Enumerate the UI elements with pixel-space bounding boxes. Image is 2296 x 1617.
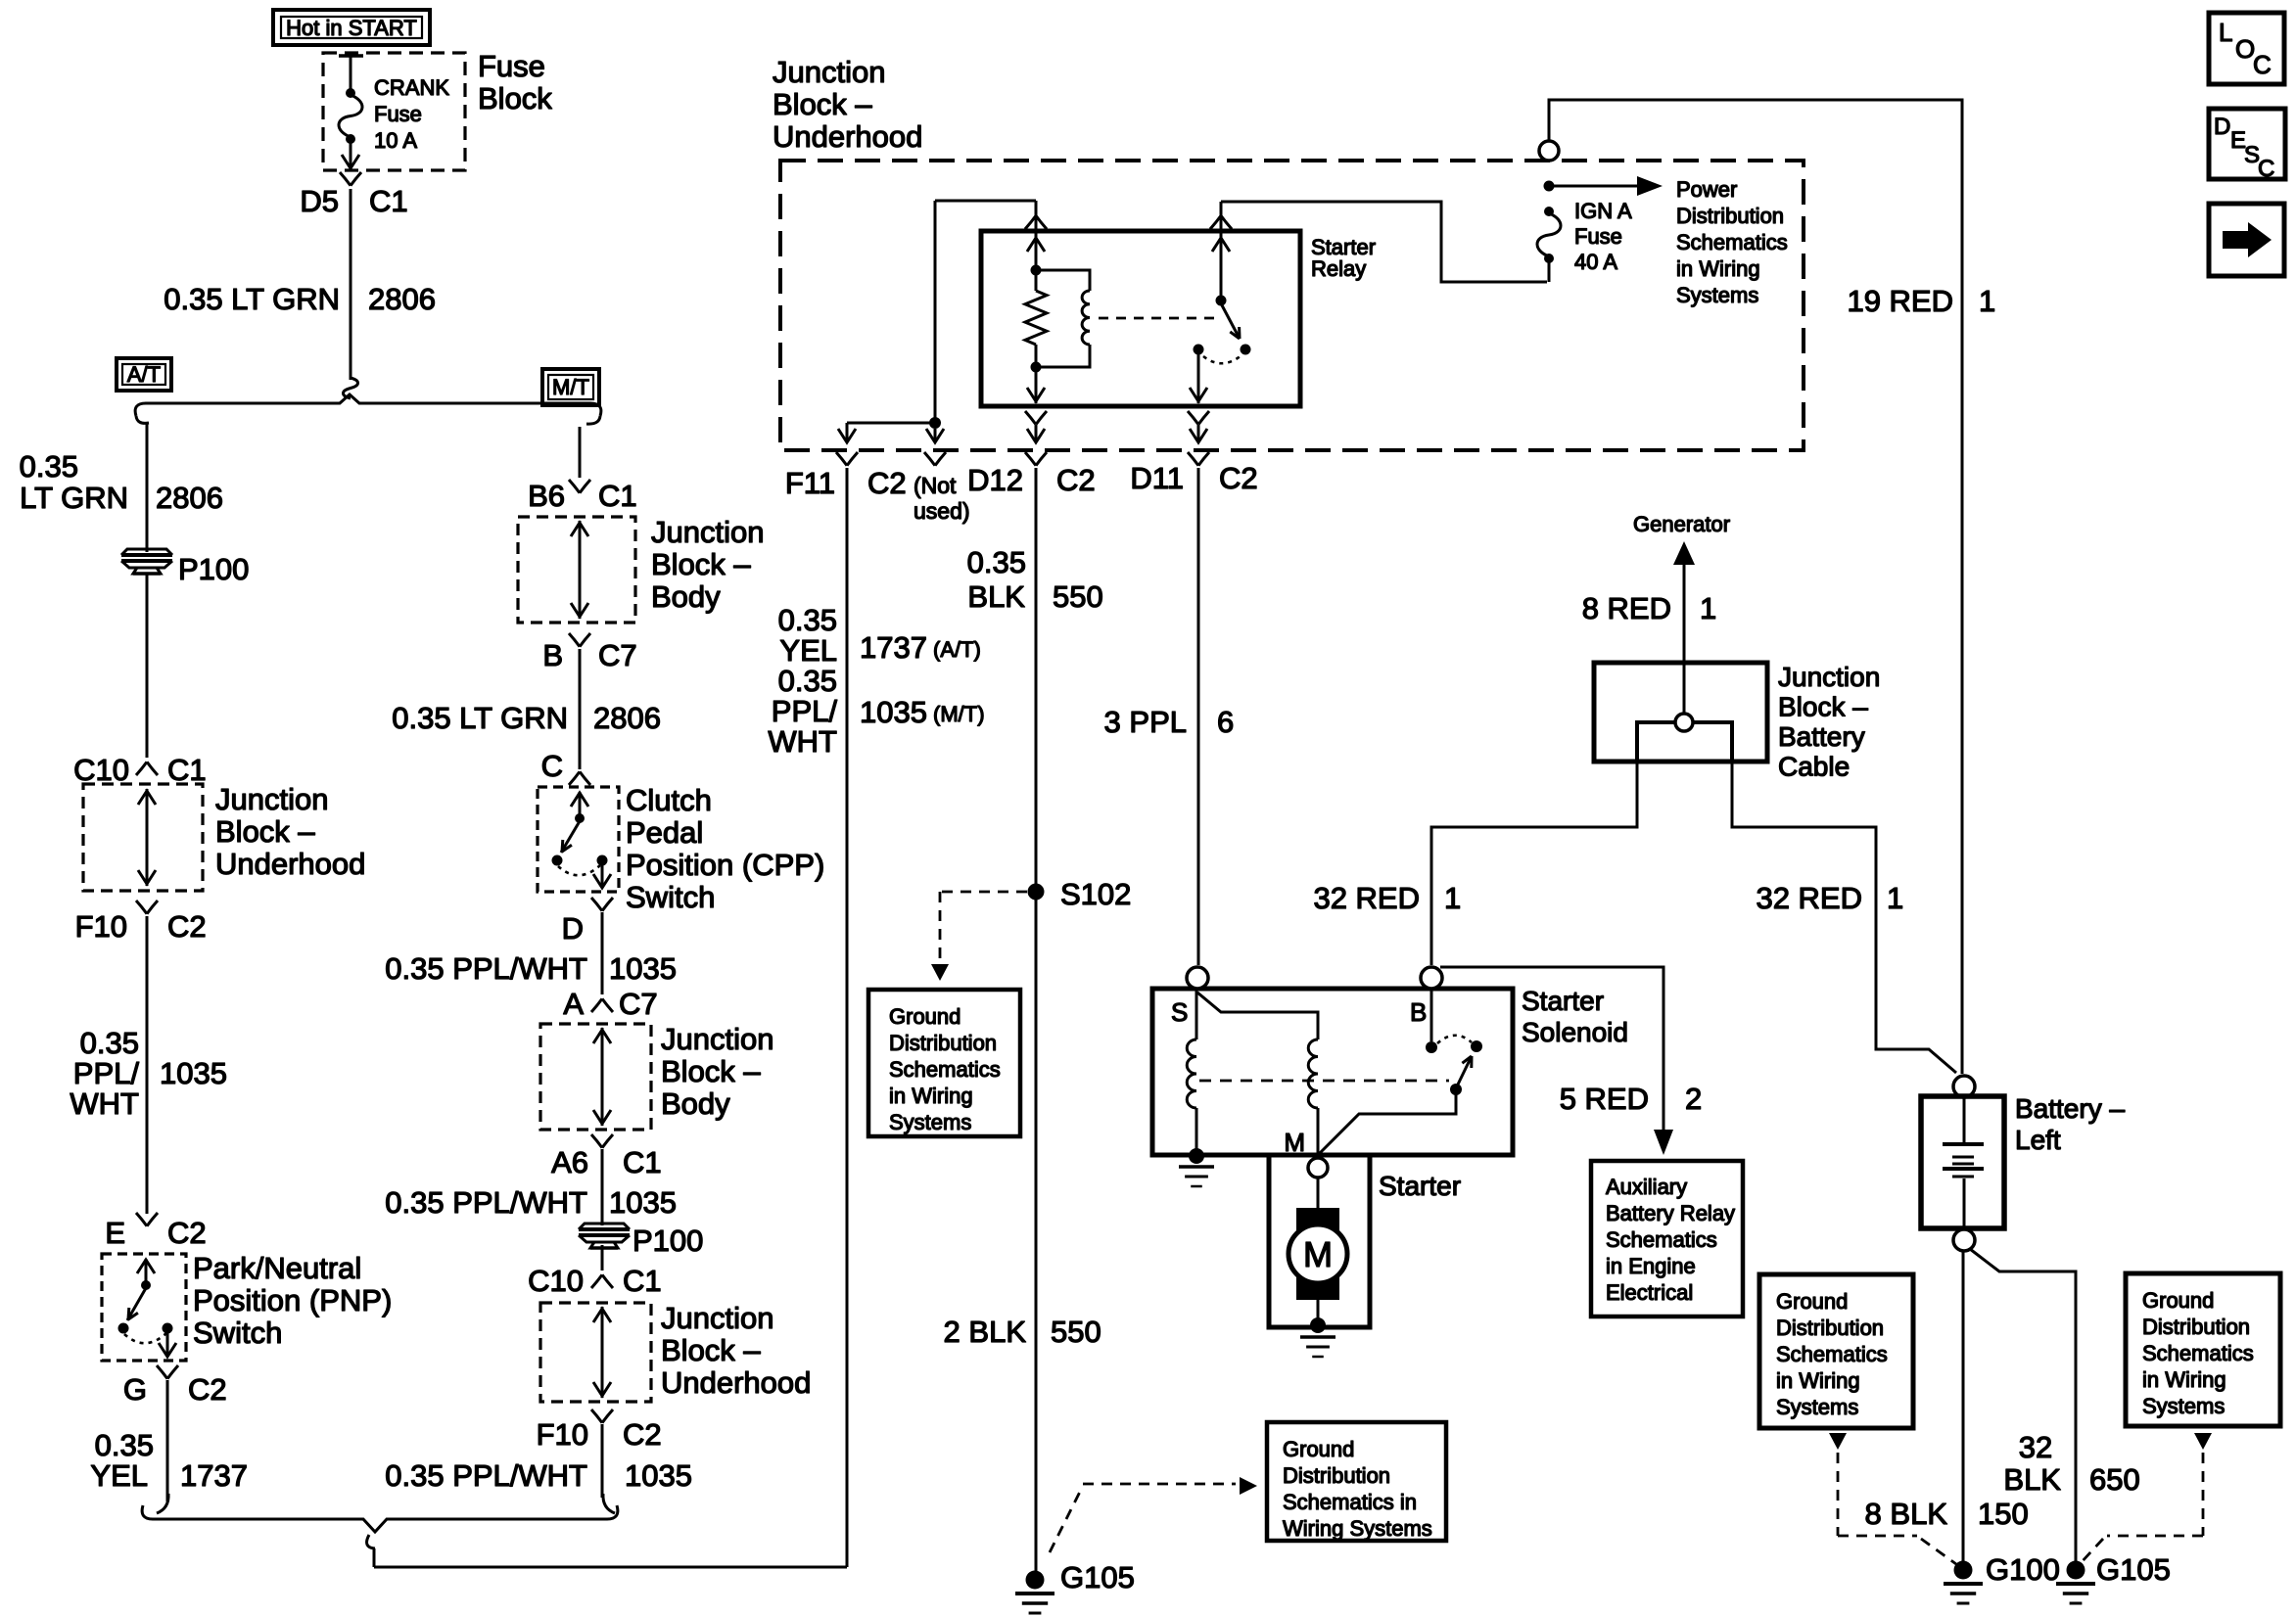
svg-text:C2: C2 [623,1417,662,1452]
svg-text:Block –: Block – [1778,692,1868,722]
svg-text:10 A: 10 A [374,128,417,153]
svg-text:C1: C1 [623,1264,662,1298]
svg-text:1035: 1035 [625,1458,692,1493]
svg-text:Left: Left [2015,1125,2061,1155]
pin label C1 [623,1264,662,1298]
reference arrow: Power Distribution Schematics [1549,176,1663,196]
park/neutral position switch dashed box [102,1254,186,1361]
svg-text:Hot in START: Hot in START [286,16,417,40]
svg-text:S102: S102 [1060,877,1131,911]
svg-text:550: 550 [1051,1315,1101,1349]
svg-text:Pedal: Pedal [626,815,703,850]
solenoid switch output to M [1318,1093,1456,1155]
wire: 3 PPL 6 from D11 to solenoid S [1197,468,1200,965]
starter motor brushes and armature M [1289,1178,1347,1321]
value label: 0.35 BLK [967,545,1026,614]
svg-text:Block –: Block – [651,547,751,581]
svg-text:G105: G105 [2096,1552,2171,1587]
value label: 0.35 PPL/WHT (M/T lower) [385,1185,587,1220]
svg-text:2806: 2806 [156,481,223,515]
wire: 0.35 LT GRN 2806 to CPP switch [579,649,582,769]
pin label A6 [551,1145,588,1179]
svg-text:Switch: Switch [193,1316,282,1350]
ground G105 (battery) [2056,1561,2095,1604]
value label: 0.35 LT GRN (A/T) [20,449,128,515]
reference box: Ground Distribution Schematics (G105 left) [1267,1422,1446,1541]
terminal label B [1410,997,1427,1027]
svg-text:D11: D11 [1130,461,1184,495]
svg-text:6: 6 [1217,705,1234,739]
value label: 0.35 PPL/WHT (bottom) [385,1458,587,1493]
ground label G105 (left) [1060,1560,1135,1594]
value label: 5 RED [1560,1082,1649,1116]
terminal label S [1171,997,1188,1027]
value label: 1 (8 RED) [1700,591,1716,625]
solenoid: Starter Solenoid box [1152,989,1513,1155]
pin label C1 [598,479,637,513]
svg-text:BLK: BLK [2003,1462,2061,1497]
junction block underhood dashed box (M/T) [540,1303,651,1402]
power tag: Hot in START box [273,10,430,45]
wire through junction block body with arrows [571,521,588,619]
value label: 32 RED (right) [1756,881,1862,915]
value label: 150 [1978,1497,2029,1531]
pin label C2 (D12) [1056,463,1096,497]
svg-text:in Wiring: in Wiring [1776,1368,1860,1393]
value label: 1035 (M/T) [860,695,985,729]
svg-text:Junction: Junction [661,1022,773,1056]
svg-text:Battery Relay: Battery Relay [1606,1201,1735,1225]
svg-text:Distribution: Distribution [1676,204,1784,228]
relay suppression resistor [1025,275,1047,365]
wire through junction block underhood with arrows [593,1307,611,1398]
solenoid pull-in winding from S [1187,989,1318,1152]
battery top terminal circle [1953,1076,1975,1097]
svg-text:Underhood: Underhood [773,119,922,154]
svg-text:C: C [2253,50,2272,79]
svg-text:Junction: Junction [773,55,885,89]
svg-text:Cable: Cable [1778,752,1850,782]
relay output wire to D11 inside box [1190,354,1207,403]
wire: 0.35 BLK 550 from D12 to S102 [1035,468,1038,886]
svg-text:YEL: YEL [90,1458,148,1493]
relay coil bottom junction [1031,362,1042,373]
connector D symbol [591,898,613,911]
value label: 2 (5 RED) [1685,1082,1702,1116]
value label: 1035 (M/T lower) [609,1185,677,1220]
svg-text:1035: 1035 [160,1056,227,1090]
svg-text:C1: C1 [167,753,207,787]
value label: 0.35 PPL/WHT [70,1026,139,1121]
svg-text:5 RED: 5 RED [1560,1082,1649,1116]
svg-text:Starter: Starter [1522,986,1604,1016]
svg-text:C1: C1 [598,479,637,513]
svg-text:in Wiring: in Wiring [2142,1367,2226,1392]
component label: Junction Block - Underhood (main) [773,55,922,154]
svg-text:Junction: Junction [215,782,328,816]
pin label D5 [300,184,339,218]
reference label: Power Distribution Schematics in Wiring Systems [1676,177,1788,307]
svg-text:Schematics: Schematics [2142,1341,2254,1365]
svg-text:Schematics: Schematics [1676,230,1788,254]
component label: Clutch Pedal Position (CPP) Switch [626,783,824,914]
wire: 32 RED 1 to starter solenoid B [1431,762,1637,965]
svg-text:40 A: 40 A [1574,250,1617,274]
pin label C7 [598,638,637,672]
junction block battery cable box [1594,663,1767,762]
value label: 1 (32 RED right) [1887,881,1903,915]
svg-text:Fuse: Fuse [478,49,545,83]
connector E/C2 symbol [136,1213,158,1226]
svg-text:D: D [562,911,584,946]
component label: Junction Block - Underhood (A/T) [215,782,365,881]
svg-text:S: S [1171,997,1188,1027]
component label: Starter Relay [1311,235,1376,281]
junction dot to power distribution reference [1544,181,1555,192]
relay switch output contact [1194,345,1204,355]
svg-text:used): used) [914,498,970,524]
svg-text:(A/T): (A/T) [933,637,981,662]
value label: 550 (upper) [1053,579,1103,614]
fuse CRANK Fuse 10 A [339,88,362,144]
wire: 19 RED 1 battery feed [1549,100,1962,1074]
svg-text:0.35 PPL/WHT: 0.35 PPL/WHT [385,1458,587,1493]
terminal M circle [1308,1158,1328,1178]
svg-text:Underhood: Underhood [661,1365,811,1400]
wire: 0.35 PPL/WHT 1035 CPP to junction block [601,912,604,994]
connector B6/C1 symbol [569,480,590,493]
wire: 0.35 PPL/WHT 1035 to merge bracket [601,1424,604,1498]
svg-text:Block –: Block – [661,1054,761,1088]
reference dashed link from G105 to ground distribution box [1050,1477,1257,1552]
clutch pedal position switch dashed box [538,787,619,892]
svg-text:A: A [563,987,584,1021]
wire: 0.35 PPL/WHT 1035 to PNP switch [146,916,149,1214]
pin label C [541,749,563,783]
pin label C10 [528,1264,584,1298]
value label: 1737 [180,1458,248,1493]
svg-text:Power: Power [1676,177,1737,202]
splice node S102 [1028,884,1045,901]
option tag: M/T box [542,369,599,405]
svg-text:C: C [541,749,563,783]
relay switch normally-open contact [1241,345,1251,355]
solenoid mechanical link dashed [1199,1080,1449,1083]
svg-text:A/T: A/T [127,362,161,387]
wire: 0.35 PPL/WHT 1035 to P100 [601,1149,604,1225]
svg-text:Schematics: Schematics [889,1057,1001,1082]
svg-text:2 BLK: 2 BLK [944,1315,1027,1349]
node label S102 [1060,877,1131,911]
svg-text:Ground: Ground [1776,1289,1848,1314]
svg-text:Systems: Systems [1676,283,1758,307]
pin label C1 [369,184,408,218]
svg-text:Park/Neutral: Park/Neutral [193,1251,361,1285]
pass-through grommet P100 (M/T) [579,1224,630,1248]
connector F10/C2 symbol [136,901,158,914]
svg-text:Block –: Block – [215,814,315,849]
svg-text:Schematics: Schematics [1606,1227,1717,1252]
connector B/C7 symbol [569,633,590,647]
svg-text:Body: Body [661,1086,730,1121]
svg-text:Switch: Switch [626,880,715,914]
value label: 0.35 LT GRN [164,282,340,316]
svg-text:D12: D12 [967,463,1023,497]
pin label C1 [167,753,207,787]
svg-text:WHT: WHT [768,724,837,759]
svg-text:0.35 PPL/WHT: 0.35 PPL/WHT [385,951,587,986]
relay switch throw arc dashed [1203,355,1242,363]
svg-text:Schematics: Schematics [1776,1342,1888,1366]
svg-text:1: 1 [1700,591,1716,625]
svg-text:C: C [2258,156,2274,182]
svg-text:0.35: 0.35 [967,545,1026,579]
svg-text:Electrical: Electrical [1606,1280,1693,1305]
svg-text:1035: 1035 [609,1185,677,1220]
connector A6/C1 symbol [591,1134,613,1148]
wire: 8 BLK 150 battery to G100 [1962,1251,1965,1564]
nav box LOC [2209,13,2284,84]
wire through junction block with arrows [138,789,156,886]
value label: 0.35 YEL [90,1428,154,1493]
solenoid switch: B contact feed [1426,989,1437,1053]
PNP switch contacts and blade [118,1259,177,1357]
svg-text:PPL/: PPL/ [772,694,838,728]
ground label G100 [1986,1552,2060,1587]
svg-text:C2: C2 [1219,461,1258,495]
ground G100 [1944,1561,1983,1604]
svg-text:Relay: Relay [1311,256,1366,281]
value label: 2 BLK [944,1315,1027,1349]
value label: 650 [2089,1462,2140,1497]
svg-text:3 PPL: 3 PPL [1104,705,1187,739]
svg-text:PPL/: PPL/ [73,1056,140,1090]
nav box arrow [2209,204,2284,276]
connector C symbol [569,771,590,785]
pin label C10 [73,753,129,787]
pass-through grommet P100 (A/T) [121,549,172,574]
svg-text:D5: D5 [300,184,339,218]
relay mechanical link dashed [1099,317,1217,320]
svg-text:(Not: (Not [914,473,957,498]
svg-text:Block –: Block – [773,87,872,121]
svg-text:0.35: 0.35 [778,664,837,698]
junction block underhood (A/T) dashed box [83,784,203,891]
svg-text:C1: C1 [623,1145,662,1179]
wire: 0.35 LT GRN 2806 from C1 down to A/T-M/T split [344,189,358,398]
svg-text:150: 150 [1978,1497,2029,1531]
svg-text:in Engine: in Engine [1606,1254,1696,1278]
relay pin exits: D12 wire to dashed edge [1025,372,1047,466]
value label: 1 (19 RED) [1979,284,1995,318]
svg-text:M: M [1284,1128,1305,1157]
svg-text:Position (CPP): Position (CPP) [626,848,824,882]
reference box: Ground Distribution Schematics (G100) [1759,1274,1913,1428]
svg-text:0.35: 0.35 [20,449,78,484]
svg-text:1737: 1737 [860,630,927,665]
solenoid switch contact dot [1471,1040,1482,1052]
wire: 5 RED 2 to auxiliary battery relay [1440,967,1673,1155]
svg-text:Distribution: Distribution [1776,1316,1884,1340]
connector F11 symbol [836,452,858,466]
terminal circle on junction block edge [1539,141,1559,161]
svg-text:M: M [1303,1234,1333,1274]
pin label B [542,638,563,672]
merge bracket joining A/T and M/T wires [142,1494,618,1548]
svg-text:Distribution: Distribution [1283,1463,1390,1488]
pin label C2 (F11) [867,466,907,500]
pin label C2 [167,909,207,944]
battery bottom terminal circle [1953,1229,1975,1251]
value label: 32 RED (left) [1313,881,1420,915]
svg-text:0.35 LT GRN: 0.35 LT GRN [164,282,340,316]
svg-text:IGN A: IGN A [1574,199,1632,223]
value label: CRANK Fuse 10 A [374,75,449,153]
svg-text:Distribution: Distribution [889,1031,997,1055]
svg-text:8 BLK: 8 BLK [1865,1497,1948,1531]
value label: 32 BLK [2003,1430,2061,1497]
svg-text:550: 550 [1053,579,1103,614]
svg-text:Battery –: Battery – [2015,1093,2125,1124]
svg-text:Systems: Systems [2142,1394,2225,1418]
wire: 32 RED 1 to battery [1732,762,1956,1073]
pin label C2 (D11) [1219,461,1258,495]
svg-text:G100: G100 [1986,1552,2060,1587]
wire: A/T branch 0.35 LT GRN 2806 [146,423,149,552]
relay switch blade with arrow [1221,303,1240,339]
svg-text:G: G [123,1372,147,1407]
connector C10/C1 symbol [136,762,158,775]
svg-text:32 RED: 32 RED [1313,881,1420,915]
svg-text:0.35: 0.35 [80,1026,139,1060]
svg-text:2: 2 [1685,1082,1702,1116]
svg-text:B: B [542,638,563,672]
svg-text:C2: C2 [1056,463,1096,497]
svg-text:Ground: Ground [2142,1288,2214,1313]
svg-text:Solenoid: Solenoid [1522,1017,1628,1047]
reference dashed link from box to G100 [1829,1433,1956,1564]
value label: 0.35 YEL / 0.35 PPL/WHT stack [768,603,837,759]
wire: F11 internal to relay feed junction [838,423,935,442]
component label: Junction Block - Body (upper) [651,515,764,614]
pin label E [105,1216,125,1250]
svg-text:32 RED: 32 RED [1756,881,1862,915]
value label: 2806 (A/T) [156,481,223,515]
svg-text:Junction: Junction [1778,662,1880,692]
svg-text:32: 32 [2019,1430,2052,1464]
pin label D12 [967,463,1023,497]
svg-text:1: 1 [1887,881,1903,915]
svg-text:Battery: Battery [1778,721,1865,752]
svg-text:Underhood: Underhood [215,847,365,881]
component label: Fuse Block [478,49,552,115]
branch bracket A/T vs M/T [135,394,601,424]
svg-text:(M/T): (M/T) [933,702,985,726]
svg-text:Schematics in: Schematics in [1283,1490,1417,1514]
svg-text:F11: F11 [785,466,835,500]
option tag: A/T box [117,358,171,391]
reference arrow to Generator [1673,541,1695,714]
svg-text:Body: Body [651,579,721,614]
starter motor ground [1300,1317,1335,1357]
svg-text:C2: C2 [188,1372,227,1407]
svg-text:Fuse: Fuse [374,102,422,126]
value label: 1035 (bottom) [625,1458,692,1493]
stub: not used terminal at C2 [924,429,946,466]
pin label C2 [167,1216,207,1250]
svg-text:Systems: Systems [889,1110,971,1134]
svg-text:B6: B6 [528,479,565,513]
svg-text:Position (PNP): Position (PNP) [193,1283,392,1317]
reference box: Ground Distribution Schematics (S102) [868,990,1020,1136]
svg-text:F10: F10 [537,1417,588,1452]
svg-text:WHT: WHT [70,1086,139,1121]
value label: 0.35 PPL/WHT (M/T upper) [385,951,587,986]
svg-text:Fuse: Fuse [1574,224,1622,249]
svg-text:0.35: 0.35 [95,1428,154,1462]
relay switch pivot [1216,296,1227,306]
svg-text:in Wiring: in Wiring [889,1084,973,1108]
pin label B6 [528,479,565,513]
nav box DESC [2209,109,2285,182]
svg-text:C7: C7 [619,987,658,1021]
svg-text:L: L [2219,18,2232,47]
svg-text:1: 1 [1444,881,1461,915]
junction block underhood main dashed box [780,161,1804,450]
value label: 1035 [160,1056,227,1090]
solenoid switch blade with arrow [1450,1056,1472,1095]
reference dashed link from S102 to ground distribution box [931,892,1027,981]
svg-text:1737: 1737 [180,1458,248,1493]
reference label: Generator [1633,512,1730,536]
relay pin exits: D11 wire to dashed edge [1188,411,1209,466]
svg-text:Block –: Block – [661,1333,761,1367]
svg-text:D: D [2214,114,2230,140]
svg-text:in Wiring: in Wiring [1676,256,1760,281]
pin label A [563,987,584,1021]
value label: IGN A Fuse 40 A [1574,199,1632,274]
svg-text:C10: C10 [73,753,129,787]
note label (Not used) [914,473,970,524]
svg-text:E: E [105,1216,125,1250]
value label: 2806 [368,282,436,316]
value label: 8 RED [1582,591,1671,625]
wire: relay common to IGN A fuse [1221,202,1547,282]
connector A/C7 symbol [591,998,613,1012]
svg-text:650: 650 [2089,1462,2140,1497]
svg-text:0.35 LT GRN: 0.35 LT GRN [392,701,568,735]
svg-text:1035: 1035 [860,695,927,729]
node label P100 [178,552,249,586]
svg-text:A6: A6 [551,1145,588,1179]
svg-text:19 RED: 19 RED [1847,284,1953,318]
relay coil top junction [1031,265,1042,276]
reference dashed link from box to G105 [2080,1433,2212,1564]
svg-text:F10: F10 [75,909,127,944]
svg-text:B: B [1410,997,1427,1027]
component label: Junction Block - Underhood (M/T) [661,1301,811,1400]
relay coil pin D12 top with connector [1025,201,1047,268]
svg-text:1: 1 [1979,284,1995,318]
value label: 1737 (A/T) [860,630,981,665]
svg-text:2806: 2806 [593,701,661,735]
svg-text:M/T: M/T [552,375,589,399]
svg-text:8 RED: 8 RED [1582,591,1671,625]
ground label G105 (right) [2096,1552,2171,1587]
svg-text:CRANK: CRANK [374,75,449,100]
svg-text:Junction: Junction [651,515,764,549]
svg-text:Generator: Generator [1633,512,1730,536]
